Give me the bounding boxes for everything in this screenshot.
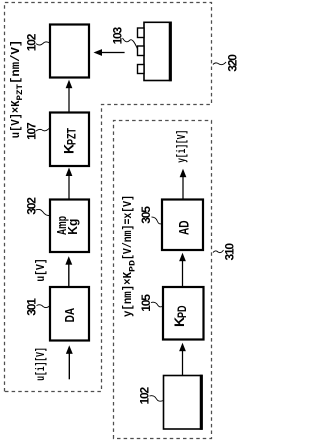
svg-text:305: 305 (139, 206, 153, 224)
svg-text:PD: PD (177, 306, 189, 319)
lead line to 103 pin (123, 38, 138, 49)
svg-text:u[V]: u[V] (35, 258, 48, 281)
wire K_PD to AD (182, 261, 184, 288)
svg-text:u[V]×K: u[V]×K (10, 100, 23, 138)
svg-text:Kg: Kg (65, 219, 80, 235)
block Amp Kg (302) (50, 200, 89, 253)
svg-text:PZT: PZT (15, 84, 25, 101)
block DA (301) (50, 287, 89, 341)
svg-text:y[i][V]: y[i][V] (176, 130, 189, 163)
svg-text:[V/nm]=x[V]: [V/nm]=x[V] (122, 195, 135, 260)
lead line to 320 (213, 62, 226, 65)
svg-text:302: 302 (24, 197, 38, 215)
svg-text:u[i][V]: u[i][V] (35, 347, 48, 381)
block 102 (bottom path) (164, 376, 203, 430)
arrow 103 to 102 (101, 52, 125, 54)
block 102 (top path) (50, 25, 89, 78)
input arrow u[i][V] (68, 353, 70, 379)
output arrow from AD (182, 177, 184, 200)
svg-text:301: 301 (25, 298, 39, 316)
pin 2 of 103 (138, 46, 145, 56)
wire Amp to K_PZT (68, 175, 70, 200)
svg-text:K: K (171, 317, 187, 327)
lead line to DA (37, 305, 50, 308)
block K_PD (105) (163, 287, 204, 340)
lead line to AD (152, 217, 163, 224)
svg-text:[nm/V]: [nm/V] (10, 40, 23, 84)
lead line to 310 (213, 250, 224, 253)
lead line to Amp (36, 209, 51, 215)
lead line to K_PZT (36, 128, 50, 132)
wire DA to Amp (68, 264, 70, 287)
svg-text:105: 105 (139, 294, 153, 312)
svg-text:310: 310 (223, 243, 237, 261)
lead line to K_PD (151, 302, 163, 307)
lead line to bottom 102 (150, 396, 164, 402)
dashed box 320 (L-shaped outline) (5, 3, 212, 392)
wire K_PZT to 102 (68, 88, 70, 113)
component 103 thick bottom edge (169, 22, 172, 82)
svg-text:PD: PD (128, 260, 138, 272)
lead line to 102 (36, 42, 50, 45)
dashed box 310 (114, 121, 212, 439)
pin 3 of 103 (138, 28, 145, 38)
svg-text:PZT: PZT (67, 128, 79, 145)
svg-text:DA: DA (62, 307, 77, 322)
block 102b thick bottom edge (200, 375, 203, 430)
svg-text:K: K (61, 144, 77, 154)
pin 1 of 103 (138, 65, 145, 74)
svg-text:AD: AD (176, 220, 192, 235)
svg-text:103: 103 (111, 26, 125, 44)
wire 102b to K_PD (182, 351, 184, 376)
svg-text:102: 102 (138, 387, 152, 405)
svg-text:y[nm]×K: y[nm]×K (122, 272, 135, 317)
component 103 (body) (144, 22, 171, 80)
block AD (305) (162, 200, 203, 251)
svg-text:320: 320 (225, 54, 239, 72)
svg-text:102: 102 (24, 33, 38, 51)
block K_PZT (107) (50, 113, 89, 167)
